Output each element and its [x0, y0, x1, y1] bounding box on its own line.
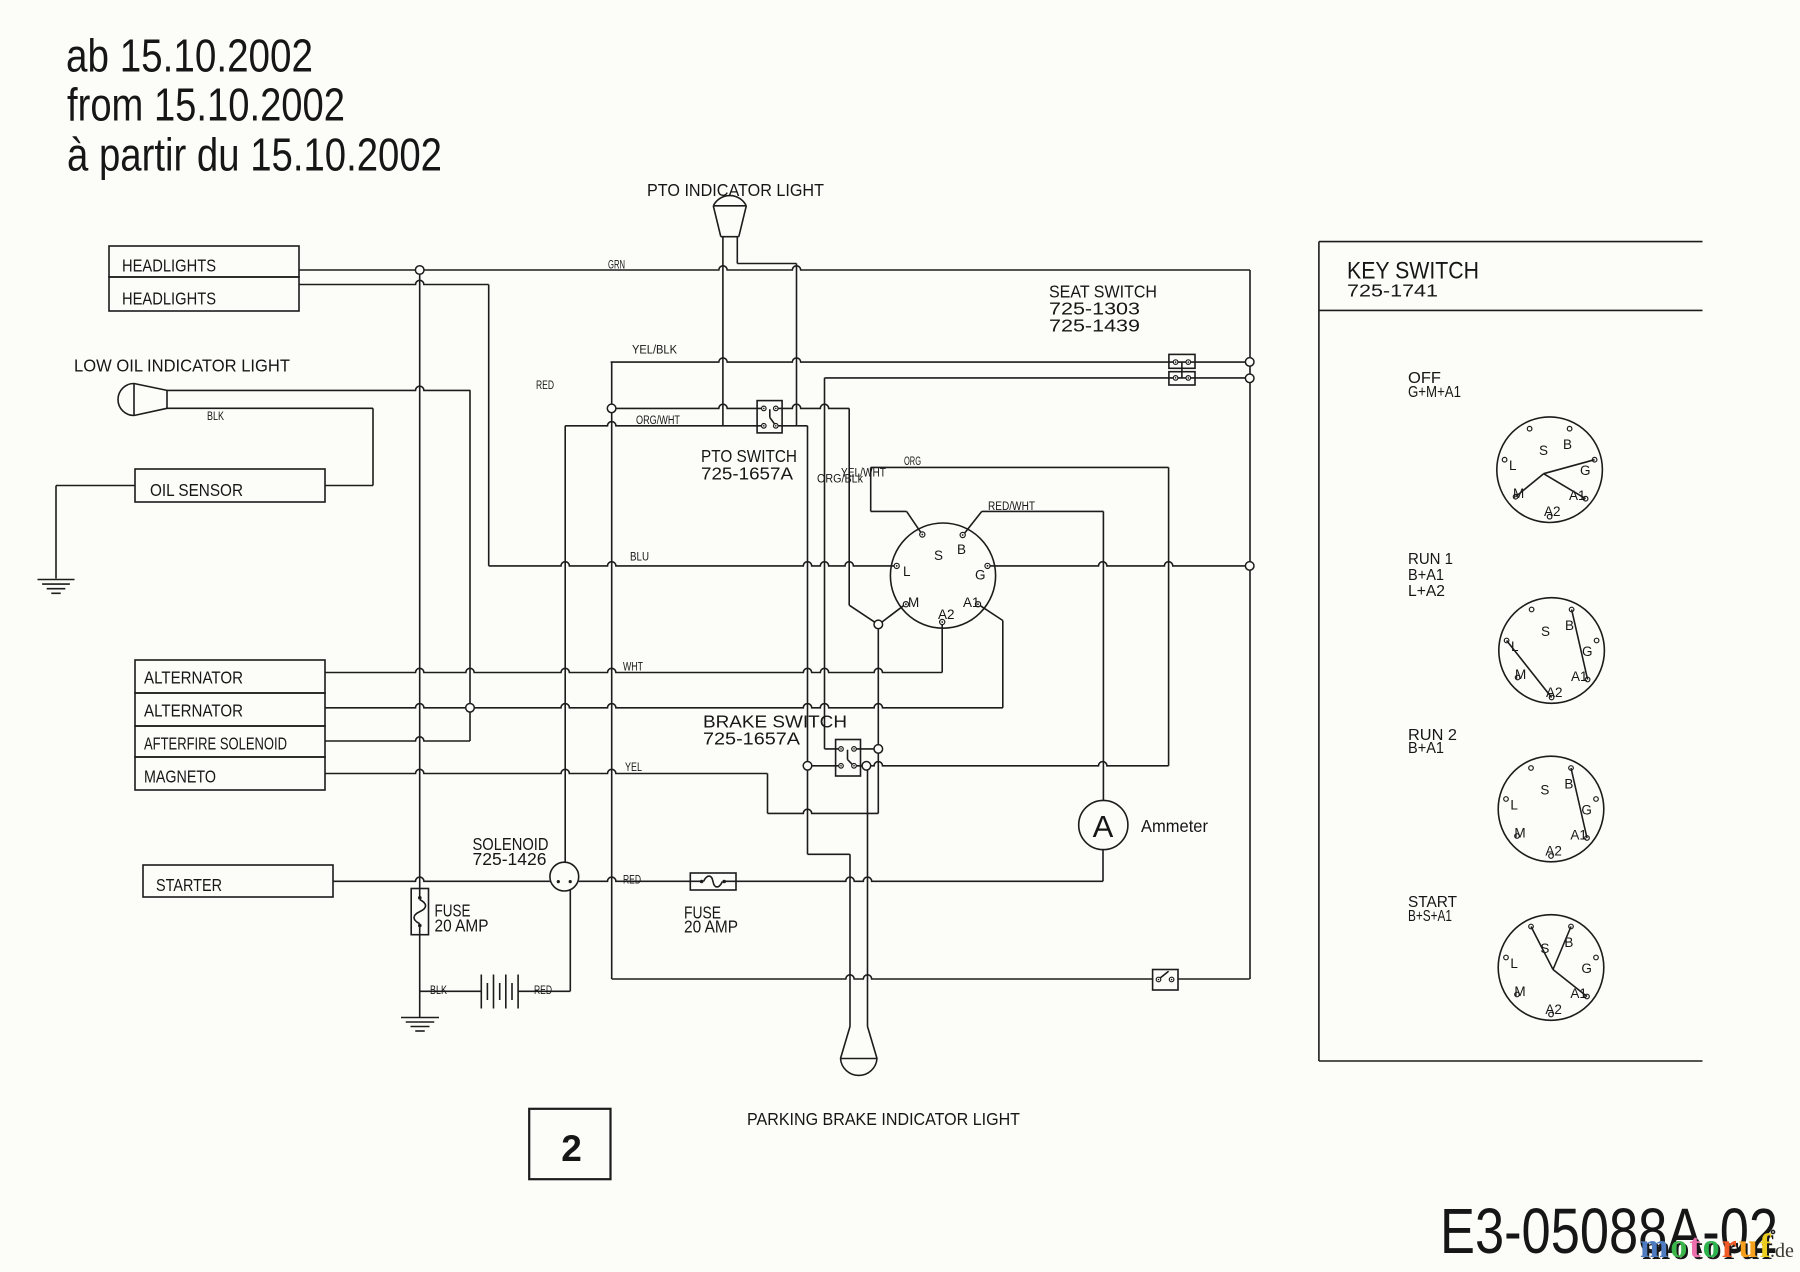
svg-text:725-1741: 725-1741 — [1347, 281, 1438, 301]
svg-text:G: G — [1580, 463, 1591, 478]
svg-text:L: L — [903, 564, 911, 579]
svg-text:Ammeter: Ammeter — [1141, 816, 1208, 836]
svg-text:2: 2 — [561, 1128, 582, 1169]
svg-text:BLU: BLU — [630, 552, 649, 564]
svg-text:A: A — [1093, 809, 1114, 844]
svg-text:HEADLIGHTS: HEADLIGHTS — [122, 289, 216, 309]
svg-text:B: B — [1563, 437, 1572, 452]
svg-text:M: M — [1515, 667, 1526, 682]
svg-text:M: M — [908, 595, 919, 610]
svg-text:20 AMP: 20 AMP — [684, 917, 738, 937]
svg-text:WHT: WHT — [623, 662, 643, 674]
svg-text:A2: A2 — [1545, 843, 1562, 858]
svg-text:RED: RED — [534, 985, 552, 997]
svg-text:20 AMP: 20 AMP — [435, 916, 489, 936]
svg-text:A2: A2 — [1545, 1002, 1562, 1017]
svg-text:A1: A1 — [1570, 986, 1587, 1001]
svg-text:motoruf: motoruf — [1640, 1228, 1773, 1265]
svg-text:B: B — [1565, 618, 1574, 633]
svg-text:ALTERNATOR: ALTERNATOR — [144, 668, 243, 688]
svg-text:G: G — [1582, 644, 1593, 659]
svg-text:from 15.10.2002: from 15.10.2002 — [67, 79, 345, 131]
svg-text:BLK: BLK — [430, 985, 447, 997]
svg-text:M: M — [1514, 825, 1525, 840]
svg-text:S: S — [1541, 624, 1550, 639]
svg-text:YEL: YEL — [625, 762, 642, 774]
svg-text:STARTER: STARTER — [156, 875, 222, 895]
svg-text:GRN: GRN — [608, 260, 625, 272]
svg-text:HEADLIGHTS: HEADLIGHTS — [122, 256, 216, 276]
svg-text:725-1657A: 725-1657A — [701, 464, 793, 484]
svg-text:S: S — [1540, 782, 1549, 797]
svg-text:RED: RED — [536, 380, 554, 392]
svg-text:725-1439: 725-1439 — [1049, 316, 1140, 336]
svg-text:S: S — [934, 548, 943, 563]
svg-text:RED/WHT: RED/WHT — [988, 501, 1035, 513]
svg-text:L: L — [1510, 797, 1518, 812]
svg-text:ORG: ORG — [904, 456, 921, 468]
svg-text:B: B — [957, 542, 966, 557]
svg-text:AFTERFIRE SOLENOID: AFTERFIRE SOLENOID — [144, 734, 287, 754]
svg-text:OIL SENSOR: OIL SENSOR — [150, 480, 243, 500]
svg-text:PARKING BRAKE INDICATOR LIGHT: PARKING BRAKE INDICATOR LIGHT — [747, 1109, 1020, 1129]
svg-text:L: L — [1509, 458, 1517, 473]
svg-text:BLK: BLK — [207, 411, 224, 423]
svg-text:G: G — [1581, 802, 1592, 817]
svg-text:G+M+A1: G+M+A1 — [1408, 384, 1461, 401]
svg-text:G: G — [975, 568, 986, 583]
svg-text:A2: A2 — [1544, 504, 1561, 519]
svg-text:PTO INDICATOR LIGHT: PTO INDICATOR LIGHT — [647, 180, 824, 200]
svg-text:LOW OIL INDICATOR LIGHT: LOW OIL INDICATOR LIGHT — [74, 356, 290, 376]
svg-text:M: M — [1514, 984, 1525, 999]
svg-text:A1: A1 — [963, 595, 980, 610]
svg-text:725-1657A: 725-1657A — [703, 729, 800, 749]
svg-text:ALTERNATOR: ALTERNATOR — [144, 701, 243, 721]
svg-text:B: B — [1564, 776, 1573, 791]
svg-text:B+S+A1: B+S+A1 — [1408, 908, 1452, 925]
svg-text:A2: A2 — [938, 607, 955, 622]
svg-text:B+A1: B+A1 — [1408, 740, 1444, 757]
svg-text:MAGNETO: MAGNETO — [144, 767, 216, 787]
svg-text:RED: RED — [623, 875, 641, 887]
svg-text:725-1426: 725-1426 — [473, 849, 547, 869]
svg-text:G: G — [1581, 961, 1592, 976]
svg-text:YEL/BLK: YEL/BLK — [632, 345, 677, 357]
svg-text:L+A2: L+A2 — [1408, 583, 1445, 600]
svg-text:à partir du 15.10.2002: à partir du 15.10.2002 — [67, 129, 442, 181]
svg-text:YEL/WHT: YEL/WHT — [841, 468, 886, 480]
svg-text:ORG/WHT: ORG/WHT — [636, 415, 680, 427]
svg-text:.de: .de — [1770, 1240, 1794, 1262]
svg-text:B+A1: B+A1 — [1408, 567, 1444, 584]
svg-text:L: L — [1510, 956, 1518, 971]
svg-text:ab 15.10.2002: ab 15.10.2002 — [66, 30, 313, 82]
svg-text:RUN 1: RUN 1 — [1408, 551, 1453, 568]
svg-text:S: S — [1539, 443, 1548, 458]
